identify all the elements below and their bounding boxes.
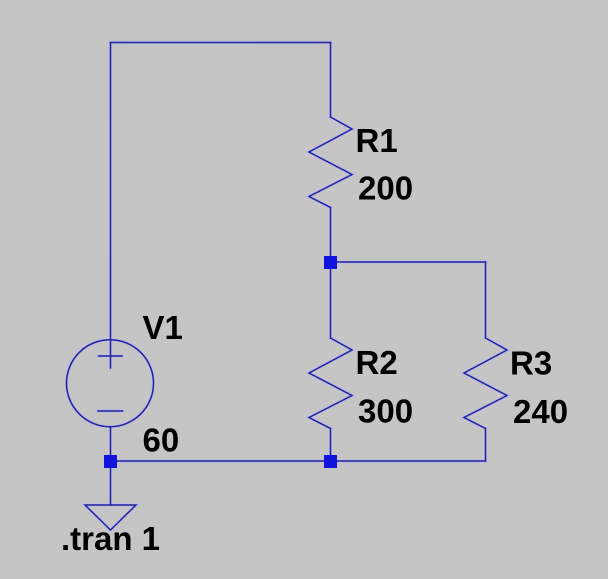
junction node R1/R2/R3 mid (324, 256, 337, 269)
V1 minus sign (98, 410, 123, 412)
wire R1 top lead (330, 43, 332, 118)
svg-text:R1: R1 (356, 122, 398, 159)
resistor R2 (309, 338, 352, 429)
svg-text:200: 200 (358, 170, 413, 207)
wire ground lead (110, 461, 112, 505)
svg-text:R2: R2 (356, 344, 398, 381)
wire R2 top lead (330, 262, 332, 338)
wire left vertical (top rail to V1 plus) (110, 43, 112, 369)
svg-text:60: 60 (143, 422, 180, 459)
resistor R3 (464, 338, 507, 429)
wire V1 bottom lead (110, 427, 112, 461)
wire R1 bottom lead (330, 208, 332, 263)
wire R2 bottom lead (330, 429, 332, 462)
V1 plus sign (99, 355, 123, 357)
wire halo underlay (67, 43, 508, 531)
wire bottom rail (111, 460, 486, 462)
wire top rail (111, 42, 331, 44)
junction node R2 bottom (324, 455, 337, 468)
wire mid rail (331, 261, 486, 263)
ground symbol (85, 505, 136, 530)
svg-text:240: 240 (513, 393, 568, 430)
svg-text:300: 300 (358, 393, 413, 430)
resistor R1 (309, 117, 352, 208)
wire R3 drop (485, 262, 487, 338)
wire R3 bottom lead (485, 429, 487, 462)
junction node V1 bottom (104, 455, 117, 468)
svg-text:R3: R3 (510, 345, 552, 382)
svg-text:.tran 1: .tran 1 (61, 520, 160, 557)
svg-text:V1: V1 (143, 309, 183, 346)
voltage source V1 circle (67, 340, 154, 427)
